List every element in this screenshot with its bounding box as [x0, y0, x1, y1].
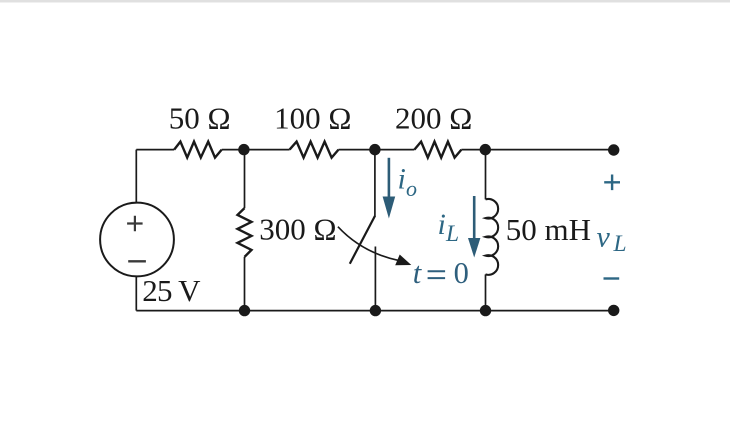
switch arc — [338, 227, 398, 261]
node F (bottom, switch) — [370, 305, 381, 316]
current arrow i_L — [468, 196, 480, 258]
resistor 200 Ohm — [414, 142, 461, 158]
node A (after 50 Ohm) — [238, 144, 249, 155]
label plus (v_L polarity) — [604, 175, 620, 191]
svg-text:i: i — [398, 163, 406, 196]
switch blade — [350, 216, 375, 264]
svg-text:100 Ω: 100 Ω — [274, 101, 351, 136]
voltage source minus sign — [128, 260, 146, 262]
node C (after 200 Ohm) — [480, 144, 491, 155]
svg-text:0: 0 — [454, 256, 469, 290]
svg-text:300 Ω: 300 Ω — [259, 212, 336, 247]
svg-text:L: L — [445, 221, 459, 247]
resistor 300 Ohm — [238, 208, 252, 257]
node G (bottom, inductor) — [480, 305, 491, 316]
wire bottom horizontal — [136, 310, 613, 312]
wire left vertical upper — [135, 150, 137, 203]
node B (after 100 Ohm) — [369, 144, 380, 155]
svg-text:50 mH: 50 mH — [506, 212, 591, 247]
current arrow i_o — [383, 158, 396, 219]
resistor 50 Ohm — [174, 142, 222, 158]
wire between node A and 200 Ohm — [339, 149, 415, 151]
resistor 100 Ohm — [290, 142, 339, 158]
voltage source 25 V — [100, 203, 174, 277]
label minus (v_L polarity) — [604, 277, 620, 279]
voltage source plus sign — [127, 216, 143, 232]
wire 300 Ohm branch lower — [244, 257, 246, 311]
svg-text:o: o — [406, 176, 417, 201]
svg-text:i: i — [438, 208, 446, 241]
node H (bottom right) — [608, 305, 619, 316]
wire inductor branch upper — [485, 150, 487, 200]
node D (top right) — [608, 144, 619, 155]
inductor 50 mH — [486, 199, 499, 275]
wire switch branch lower — [374, 247, 376, 311]
switch arrowhead — [395, 255, 411, 266]
wire inductor branch lower — [485, 274, 487, 310]
wire 300 Ohm branch upper — [244, 150, 246, 209]
wire between 50 Ohm and node A — [222, 149, 290, 151]
wire left vertical lower — [135, 276, 137, 311]
svg-text:200 Ω: 200 Ω — [395, 101, 472, 136]
wire top right horizontal — [461, 149, 613, 151]
node E (bottom, 300 Ohm) — [239, 305, 250, 316]
svg-text:50 Ω: 50 Ω — [169, 101, 231, 136]
svg-text:L: L — [613, 231, 627, 257]
wire top left horizontal — [136, 149, 174, 151]
svg-text:v: v — [597, 221, 611, 254]
svg-text:25 V: 25 V — [142, 273, 201, 308]
wire switch branch upper — [374, 150, 376, 217]
